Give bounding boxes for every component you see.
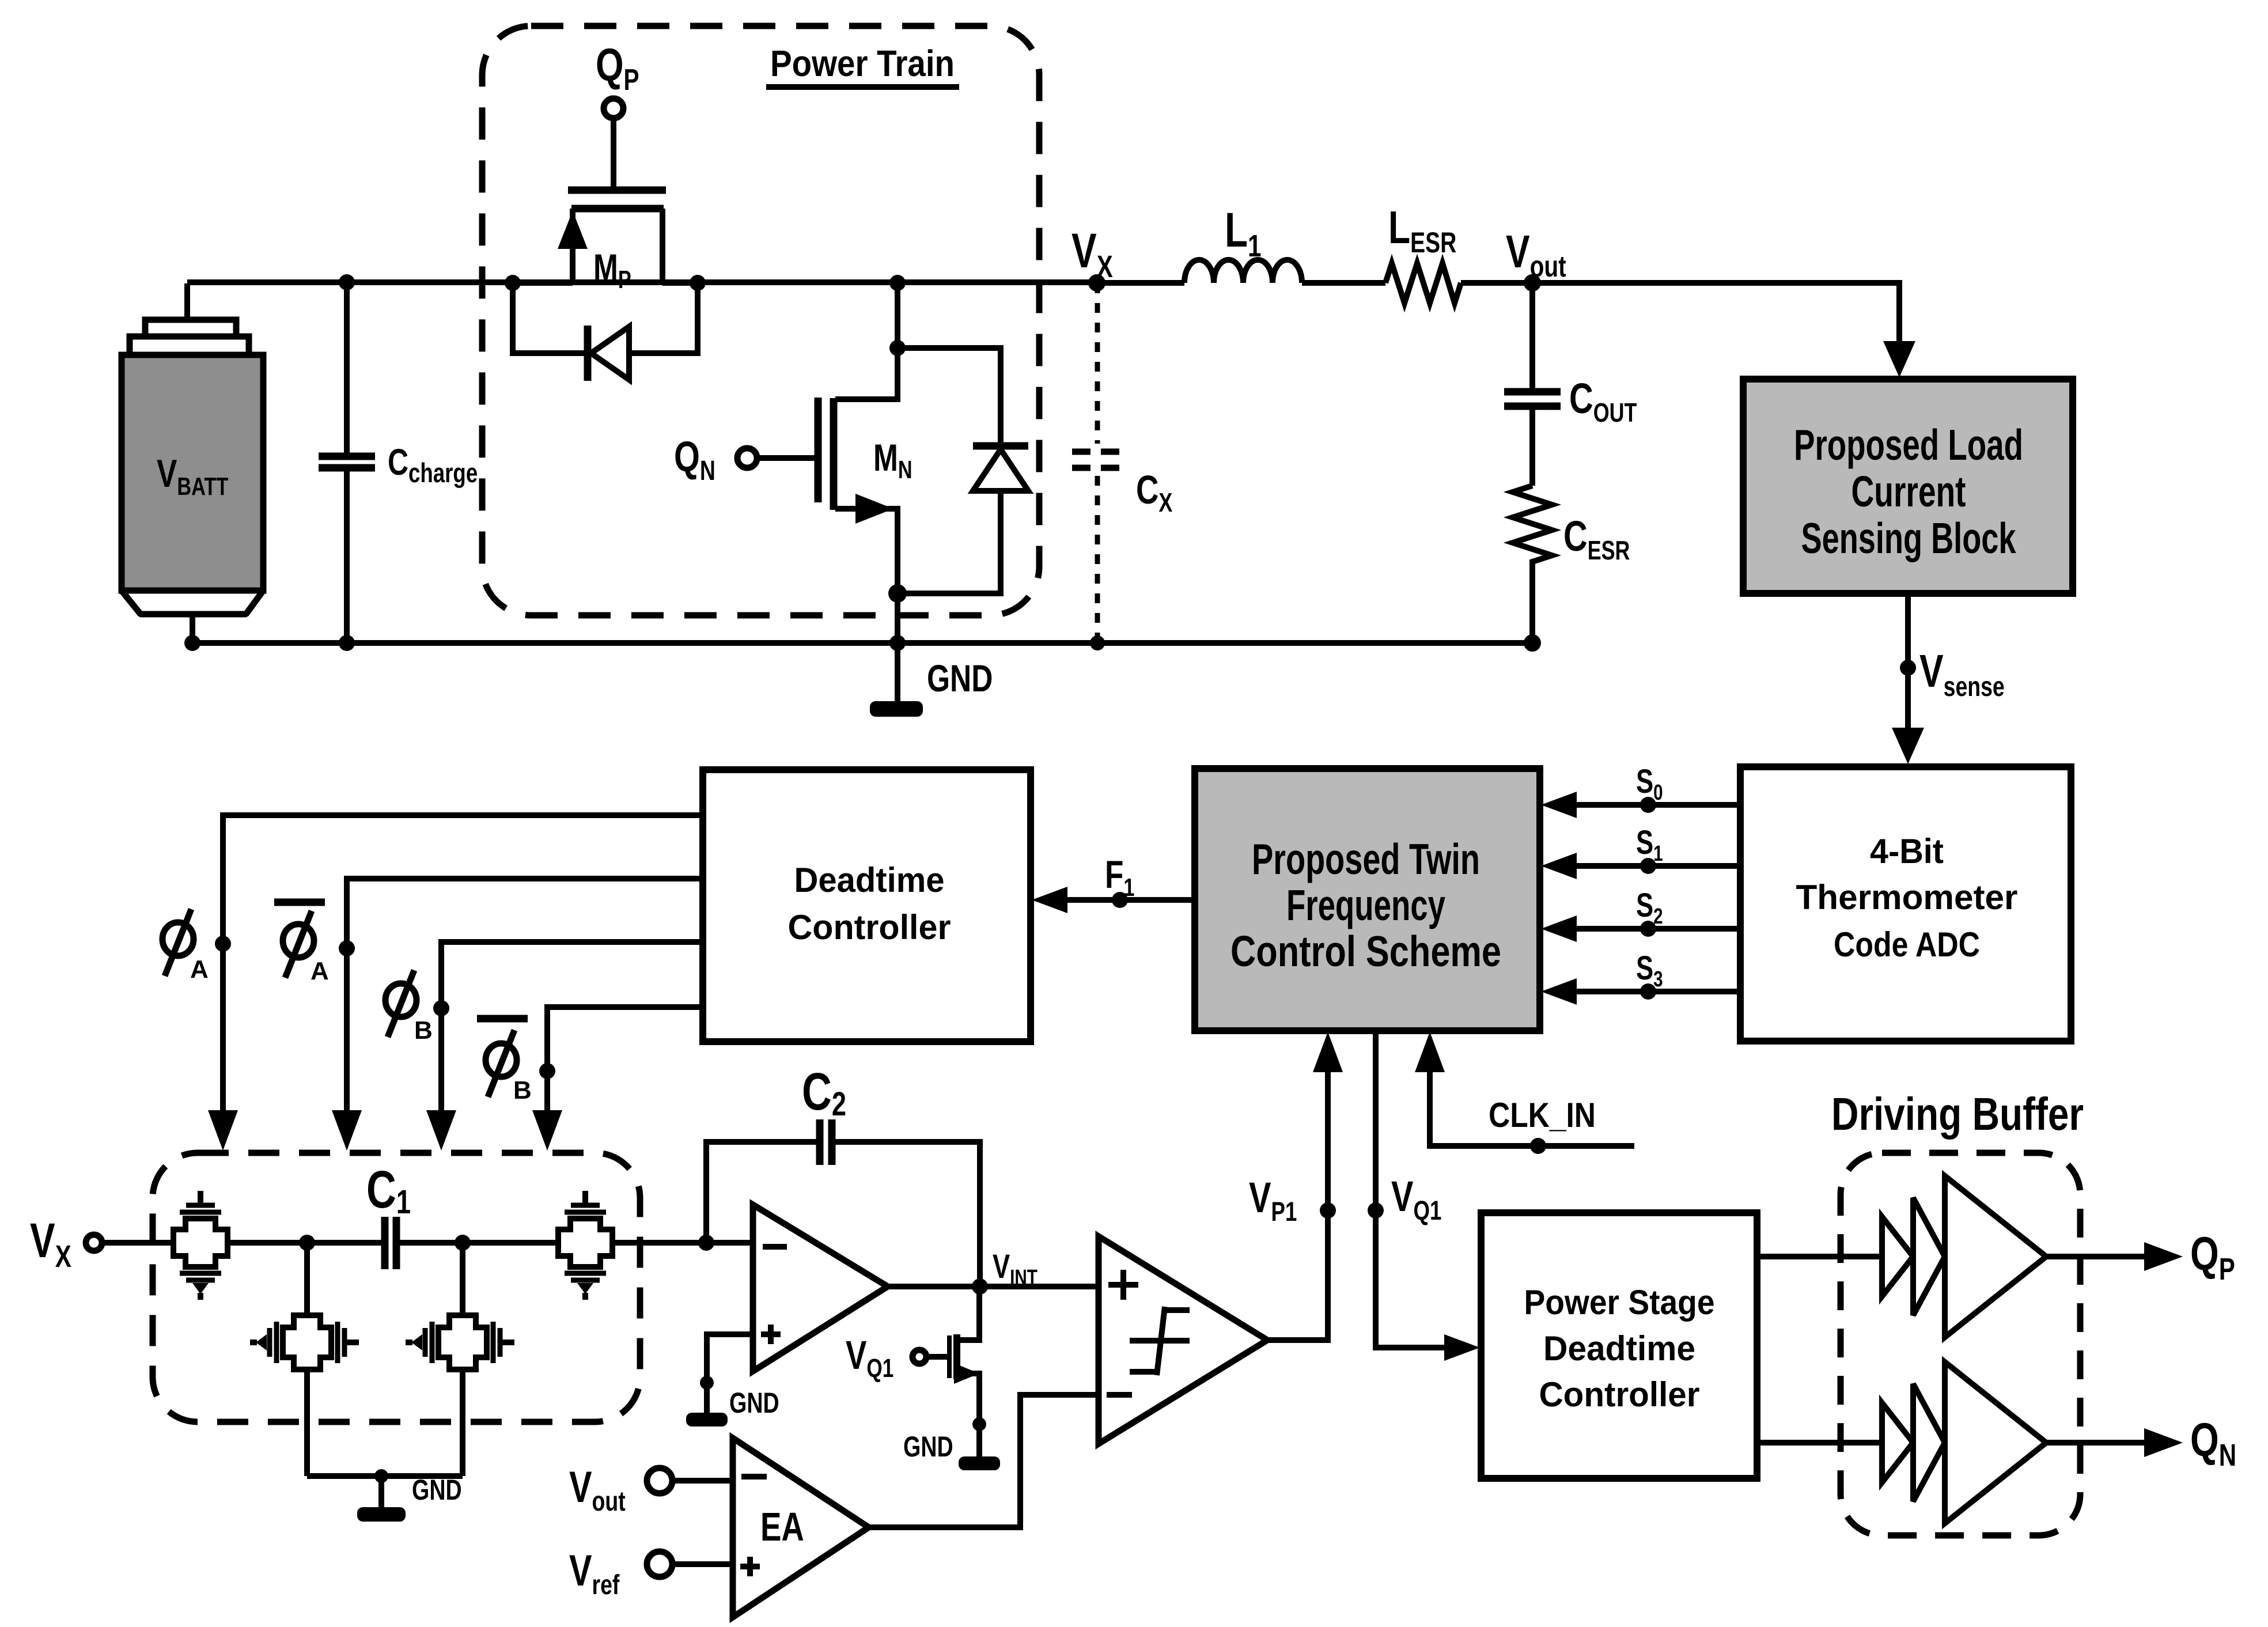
svg-text:Frequency: Frequency (1286, 881, 1445, 929)
node Vout (1524, 274, 1541, 292)
node: MN drain junction on VX rail (889, 275, 906, 291)
label phiB (385, 970, 433, 1045)
terminal VX input (30, 1213, 102, 1274)
wire phiB (426, 942, 703, 1151)
svg-text:Thermometer: Thermometer (1796, 878, 2018, 917)
block: Power Stage Deadtime Controller (1481, 1213, 1757, 1478)
wire: battery bottom lead (190, 614, 195, 643)
wire S3 (1541, 950, 1740, 1005)
wire S0 (1541, 763, 1740, 818)
wire: C2 feedback loop (706, 1142, 980, 1287)
svg-text:Current: Current (1851, 467, 1966, 516)
label: Power Train title (766, 43, 959, 87)
op-amp EA error amplifier (733, 1438, 869, 1617)
arrow QN output (2144, 1428, 2183, 1457)
svg-text:B: B (414, 1016, 433, 1045)
block: Proposed Twin Frequency Control Scheme (1195, 769, 1540, 1031)
label phiA-bar (274, 902, 329, 985)
resistor CESR (1513, 486, 1630, 643)
svg-text:EA: EA (760, 1505, 804, 1550)
node: MP source junction (505, 275, 521, 291)
wire: EA output to comparator - input (869, 1395, 1099, 1527)
svg-text:GND: GND (412, 1473, 462, 1506)
svg-text:Power Train: Power Train (770, 43, 955, 84)
wire phiA (208, 815, 703, 1151)
svg-text:Code ADC: Code ADC (1834, 925, 1980, 964)
label: Vout net name (1506, 226, 1566, 283)
node Vsense (1900, 660, 1916, 676)
op-amp U1 integrator (753, 1205, 888, 1371)
svg-text:4-Bit: 4-Bit (1870, 832, 1944, 871)
svg-text:Sensing Block: Sensing Block (1801, 514, 2016, 562)
node: Ccharge top junction (339, 274, 355, 290)
wire: right shunt branch (460, 1243, 465, 1476)
label: Vsense (1919, 646, 2005, 703)
wire S1 (1541, 824, 1740, 879)
wire: Vout to load sensing block (1532, 283, 1899, 346)
svg-text:GND: GND (729, 1386, 779, 1419)
Power Train dashed box (482, 26, 1039, 615)
node: Ccharge bottom junction (339, 635, 355, 651)
ground symbol GND (NMOS) (903, 1430, 1000, 1470)
svg-text:Controller: Controller (788, 908, 951, 947)
wire S2 (1541, 887, 1740, 942)
svg-text:A: A (190, 955, 209, 983)
node VINT (972, 1278, 988, 1295)
terminal QN gate input (674, 433, 818, 486)
block: 4-Bit Thermometer Code ADC (1740, 767, 2071, 1041)
label QN output (2190, 1413, 2236, 1473)
capacitor Ccharge (319, 282, 478, 643)
ground symbol GND (switched-cap) (357, 1469, 462, 1522)
label QP output (2190, 1227, 2235, 1287)
terminal Vout (EA - input) (569, 1463, 733, 1517)
node: NMOS source ground tap (972, 1417, 986, 1431)
node: MN drain diode tap (889, 340, 906, 356)
wire phiA-bar (332, 879, 703, 1151)
wire: bottom ground rail (192, 640, 1532, 646)
svg-text:Proposed Load: Proposed Load (1794, 421, 2023, 469)
switch S-A2 (series pass gate) (558, 1191, 612, 1300)
transistor Q1 (VINT reset NMOS) (949, 1287, 979, 1456)
node VX (1088, 274, 1105, 292)
label C1 (366, 1160, 411, 1221)
inductor L1 (1184, 203, 1302, 283)
node: MN source diode tap (888, 584, 907, 603)
wire: power stage to QP buffer (1757, 1254, 1882, 1259)
diode DP (MP body diode) (513, 283, 698, 381)
switch S-A1 (series pass gate) (173, 1191, 228, 1300)
wire: switched-cap output to integrator (612, 1240, 753, 1246)
svg-text:B: B (513, 1076, 532, 1104)
terminal VQ1 (reset gate input) (846, 1333, 948, 1383)
wire: Vsense (1905, 593, 1911, 732)
wire: QP output (2046, 1254, 2145, 1259)
svg-text:Deadtime: Deadtime (1543, 1329, 1695, 1368)
node: MN source on ground rail (889, 635, 906, 651)
svg-text:A: A (311, 957, 329, 985)
wire: switch to C1 (228, 1240, 385, 1246)
node: integrator input junction (698, 1235, 714, 1251)
label phiB-bar (477, 1019, 532, 1104)
ground symbol GND (power train) (870, 643, 993, 717)
battery VBATT (122, 320, 263, 614)
switch S-B1 (shunt pass gate) (250, 1315, 359, 1369)
capacitor CX (parasitic, dashed) (1072, 283, 1173, 643)
svg-text:Proposed Twin: Proposed Twin (1252, 835, 1480, 883)
node: battery bottom junction (184, 635, 200, 651)
wire phiB-bar (532, 1007, 703, 1151)
diode DN (MN body diode) (898, 348, 1028, 593)
wire: top supply rail (187, 282, 1532, 283)
switched-capacitor sensing dashed box (153, 1153, 640, 1422)
wire: battery top terminal (184, 283, 190, 321)
Driving Buffer dashed box (1841, 1153, 2080, 1535)
node: CESR bottom junction (1524, 634, 1541, 652)
transistor MP (PMOS high-side) (513, 190, 698, 294)
resistor LESR (1385, 202, 1461, 303)
svg-text:CLK_IN: CLK_IN (1489, 1096, 1596, 1134)
wire: QN output (2046, 1440, 2145, 1446)
transistor MN (NMOS low-side) (818, 283, 912, 643)
node: ground tap (700, 1376, 714, 1390)
wire: left shunt branch (304, 1243, 310, 1476)
node: C1 left plate junction (299, 1235, 315, 1251)
capacitor C2 (820, 1119, 832, 1165)
wire: integrator + input to ground (707, 1334, 753, 1413)
node: CX bottom junction (1090, 635, 1105, 650)
svg-text:Power Stage: Power Stage (1524, 1283, 1715, 1322)
arrow QP output (2144, 1242, 2183, 1271)
wire: integrator output VINT (888, 1284, 1099, 1289)
svg-text:Driving Buffer: Driving Buffer (1831, 1088, 2084, 1140)
block: Proposed Load Current Sensing Block (1743, 379, 2073, 593)
label phiA (162, 909, 209, 983)
ground symbol GND (integrator) (686, 1386, 779, 1427)
wire: VX into switched-cap network (102, 1240, 173, 1246)
terminal Vref (EA + input) (569, 1546, 733, 1600)
block: Deadtime Controller (703, 770, 1031, 1042)
buffer chain QP (cascaded inverters) (1882, 1176, 2046, 1337)
wire VQ1 (twin control to power stage deadtime) (1368, 1031, 1480, 1361)
svg-text:Controller: Controller (1539, 1375, 1700, 1414)
label C2 (802, 1062, 846, 1123)
node: C1 right plate junction (455, 1235, 471, 1251)
arrow into ADC (1892, 728, 1924, 764)
buffer chain QN (cascaded inverters) (1882, 1362, 2046, 1523)
node: MP drain junction (690, 275, 706, 291)
svg-text:Control Scheme: Control Scheme (1230, 927, 1501, 975)
capacitor C1 (385, 1217, 396, 1269)
svg-text:Deadtime: Deadtime (794, 861, 945, 899)
label: VX net name (1071, 224, 1113, 284)
terminal QP gate input (596, 40, 639, 190)
wire: C1 to second switch (396, 1240, 558, 1246)
svg-text:GND: GND (927, 657, 993, 700)
wire CLK_IN (1415, 1032, 1634, 1154)
label VINT (993, 1248, 1038, 1290)
wire: shunt ground rail (307, 1473, 463, 1479)
svg-text:GND: GND (903, 1430, 953, 1463)
wire VP1 (comparator output to twin control) (1249, 1032, 1343, 1340)
wire: power stage to QN buffer (1757, 1440, 1882, 1446)
comparator U2 with hysteresis (1099, 1236, 1267, 1444)
switch S-B2 (shunt pass gate) (406, 1315, 514, 1369)
wire F1 (1032, 853, 1195, 913)
arrow into sensing block (1883, 341, 1915, 377)
capacitor COUT (1504, 283, 1637, 486)
